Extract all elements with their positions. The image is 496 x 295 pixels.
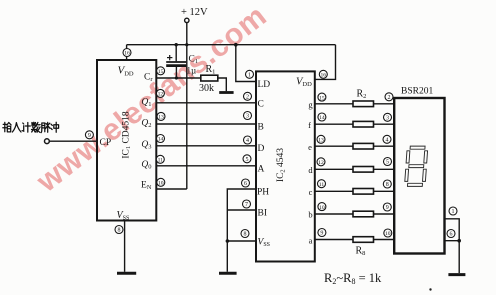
svg-text:13: 13: [158, 115, 164, 121]
svg-text:BSR201: BSR201: [401, 87, 433, 97]
svg-text:IC1 CD4518: IC1 CD4518: [122, 111, 133, 159]
IC2 B pin label: [258, 122, 264, 132]
wire: Q2 to B (row 2): [156, 123, 256, 125]
IC2 d pin label: [308, 165, 313, 175]
svg-text:8: 8: [118, 228, 121, 234]
pin 1 display: [449, 207, 457, 215]
IC2 b pin label: [308, 210, 312, 220]
node +12V supply label: [181, 7, 208, 18]
svg-text:5: 5: [246, 157, 249, 163]
wire: Q3 to D (row 3): [156, 145, 256, 147]
IC2 C pin label: [258, 99, 264, 109]
pin 3 display: [384, 113, 392, 121]
svg-text:11: 11: [158, 158, 164, 164]
IC1 Q0 pin label: [141, 160, 151, 171]
terminal: +12V open circle: [185, 18, 189, 22]
node: junction C1 bottom on Cr net: [175, 76, 178, 79]
wire: f row pin14 to display pin3: [315, 123, 394, 125]
resistor R8: [353, 237, 374, 243]
wire: d row pin12 to display pin5: [315, 168, 394, 170]
svg-text:9: 9: [320, 231, 323, 237]
wire: IC2 VSS to ground: [227, 241, 256, 272]
pin 12 IC1: [156, 89, 164, 97]
IC1 VDD pin label: [118, 65, 134, 78]
pin 13 IC1: [157, 112, 165, 120]
svg-text:b: b: [308, 210, 312, 220]
svg-text:9: 9: [386, 205, 389, 211]
value label 30k: [199, 83, 214, 94]
svg-text:c: c: [309, 187, 313, 197]
svg-text:2: 2: [246, 95, 249, 101]
pin 4 display: [383, 135, 391, 143]
value label R8: [356, 245, 366, 256]
node: input label (Chinese: input counting pulse) drawn strokes: [3, 122, 59, 132]
svg-text:6: 6: [244, 181, 247, 187]
svg-text:13: 13: [318, 138, 324, 144]
IC2 PH pin label: [257, 188, 269, 198]
pin 1 IC2: [246, 70, 254, 78]
pin 9 display: [383, 203, 391, 211]
IC2 D pin label: [258, 144, 265, 154]
pin 8 IC1: [115, 226, 123, 234]
IC1 Q3 pin label: [141, 140, 151, 151]
svg-text:+ 12V: + 12V: [181, 7, 208, 18]
svg-text:3: 3: [386, 116, 389, 122]
pin 16 IC2: [319, 70, 327, 78]
ground: display ground bar: [448, 273, 465, 276]
IC2 VSS pin label: [258, 238, 271, 249]
IC1 Cr pin label: [144, 73, 153, 84]
node: junction C1 top on rail: [175, 43, 178, 46]
terminal: input open circle: [45, 139, 50, 144]
svg-text:10: 10: [158, 181, 164, 187]
svg-text:30k: 30k: [199, 83, 214, 94]
wire: IC1 VSS stub to ground: [124, 221, 126, 272]
svg-text:12: 12: [158, 92, 164, 98]
pin 16 IC1: [123, 49, 131, 57]
pin 10 IC2: [318, 203, 326, 211]
wire: IC2 pin16 VDD to rail: [315, 45, 336, 80]
value label R1: [206, 64, 216, 76]
stray dot mark: [429, 288, 431, 290]
IC1 Q2 pin label: [141, 118, 151, 129]
svg-text:8: 8: [244, 232, 247, 238]
pin 6 display: [447, 230, 455, 238]
IC2 c pin label: [309, 187, 313, 197]
wire: +12V vertical feed down to EN: [186, 23, 188, 190]
wire: display pin6 common to ground: [445, 241, 460, 273]
pin 11 IC1: [156, 155, 164, 163]
resistor R4: [353, 143, 374, 149]
svg-text:16: 16: [124, 51, 130, 57]
svg-text:3: 3: [246, 114, 249, 120]
svg-text:8: 8: [386, 182, 389, 188]
pin 13 IC2: [317, 135, 325, 143]
wire: EN to +12V vertical: [156, 188, 187, 190]
IC2 name IC2 4543: [276, 148, 287, 182]
IC U1 CD4518 box: [97, 60, 156, 221]
wire: a row pin9 to display pin10: [315, 239, 394, 241]
svg-text:B: B: [258, 122, 264, 132]
svg-text:PH: PH: [257, 188, 269, 198]
seven-segment digit 8: [404, 146, 427, 186]
svg-text:15: 15: [158, 69, 164, 75]
display name BSR201: [401, 87, 433, 97]
svg-text:f: f: [308, 120, 311, 130]
display BSR201 box: [394, 98, 444, 254]
IC2 g pin label: [308, 100, 313, 110]
pin 8 IC2: [241, 230, 249, 238]
wire: R1 right lead to ground: [218, 78, 227, 91]
resistor R3: [353, 121, 374, 127]
IC2 e pin label: [308, 142, 312, 152]
pin 15 IC2: [318, 93, 326, 101]
IC2 LD pin label: [258, 80, 271, 90]
wire: Q1 to C (row 1): [156, 102, 256, 104]
wire: g row pin15 to display pin2: [315, 103, 394, 105]
svg-text:1: 1: [248, 73, 251, 79]
wire: top +12V rail: [127, 44, 336, 46]
IC1 Q1 pin label: [141, 97, 151, 108]
ground: IC1 ground bar: [117, 272, 136, 275]
IC1 VSS pin label: [117, 210, 130, 222]
IC2 BI pin label: [258, 209, 268, 219]
pin 9 IC2: [318, 229, 326, 237]
node: junction display common: [457, 239, 461, 243]
IC1 name IC1 CD4518: [122, 111, 133, 159]
svg-text:CP: CP: [100, 138, 112, 148]
wire: input CP lead: [49, 140, 97, 142]
pin 2 IC2: [244, 92, 252, 100]
value label R2: [357, 88, 367, 100]
wire: c row pin11 to display pin8: [315, 190, 394, 192]
IC2 A pin label: [258, 164, 265, 174]
pin 14 IC2: [318, 113, 326, 121]
wire: PH to ground bus: [227, 189, 256, 241]
svg-text:9: 9: [88, 133, 91, 139]
resistor R1 30k: [201, 75, 218, 81]
ground: R1 ground bar: [219, 91, 233, 94]
pin 3 IC2: [244, 112, 252, 120]
resistor R7: [353, 211, 374, 217]
wire: Cr reset net (pin15 to R1): [156, 77, 201, 79]
IC2 VDD pin label: [296, 76, 312, 88]
wire: b row pin10 to display pin9: [315, 213, 394, 215]
caption R2~R8=1k: [324, 271, 382, 286]
wire: e row pin13 to display pin4: [315, 145, 394, 147]
node: junction VSS/ground bus: [226, 239, 230, 243]
svg-text:1: 1: [452, 209, 455, 215]
resistor R2: [353, 101, 374, 107]
node: junction +12V on rail: [185, 43, 188, 46]
wire: Q0 to A (row 4): [156, 165, 256, 167]
svg-text:IC2 4543: IC2 4543: [276, 148, 287, 182]
IC1 CP pin label: [100, 138, 112, 148]
svg-text:14: 14: [319, 115, 325, 121]
svg-text:BI: BI: [258, 209, 268, 219]
IC U2 4543 box: [256, 71, 315, 261]
resistor R6: [353, 189, 374, 195]
svg-text:A: A: [258, 164, 265, 174]
pin 14 IC1: [157, 135, 165, 143]
svg-text:1µ: 1µ: [187, 66, 197, 76]
svg-text:16: 16: [321, 73, 327, 79]
svg-text:e: e: [308, 142, 312, 152]
pin 12 IC2: [317, 158, 325, 166]
pin 5 IC2: [243, 155, 251, 163]
svg-text:LD: LD: [258, 80, 271, 90]
pin 2 display: [385, 93, 393, 101]
svg-text:6: 6: [450, 232, 453, 238]
node: junction LD drop on rail: [234, 43, 238, 47]
resistor R5: [353, 167, 374, 173]
svg-text:C: C: [258, 99, 264, 109]
pin 11 IC2: [318, 180, 326, 188]
pin 8 display: [383, 180, 391, 188]
pin 7 IC2: [243, 200, 251, 208]
pin 6 IC2: [242, 179, 250, 187]
pin 5 display: [384, 158, 392, 166]
ground: middle ground bar: [219, 272, 237, 275]
IC2 a pin label: [309, 235, 313, 245]
value label C1: [189, 55, 199, 66]
pin 10 display: [384, 229, 392, 237]
IC2 f pin label: [308, 120, 311, 130]
svg-text:5: 5: [386, 160, 389, 166]
svg-text:2: 2: [388, 95, 391, 101]
value label 1u: [187, 66, 197, 76]
pin 15 IC1: [157, 67, 165, 75]
wire: LD tie-high drop from rail: [236, 45, 256, 82]
svg-text:4: 4: [246, 138, 249, 144]
wire: BI to ground bus: [227, 209, 256, 211]
svg-text:4: 4: [386, 138, 389, 144]
svg-text:11: 11: [319, 182, 325, 188]
IC1 EN pin label: [141, 180, 152, 191]
pin 4 IC2: [244, 136, 252, 144]
svg-text:7: 7: [245, 202, 248, 208]
svg-text:10: 10: [319, 205, 325, 211]
svg-text:15: 15: [319, 95, 325, 101]
watermark www.elecfans.com: [30, 0, 273, 199]
capacitor C1 electrolytic: [166, 45, 186, 78]
wire: display pin1 common: [445, 219, 460, 241]
pin 9 IC1: [85, 131, 93, 139]
svg-text:10: 10: [385, 231, 391, 237]
pin 10 IC1: [157, 178, 165, 186]
svg-text:12: 12: [318, 160, 324, 166]
wire: IC1 pin16 stub: [126, 45, 128, 61]
svg-text:14: 14: [158, 137, 164, 143]
svg-text:a: a: [309, 235, 313, 245]
svg-text:D: D: [258, 144, 265, 154]
